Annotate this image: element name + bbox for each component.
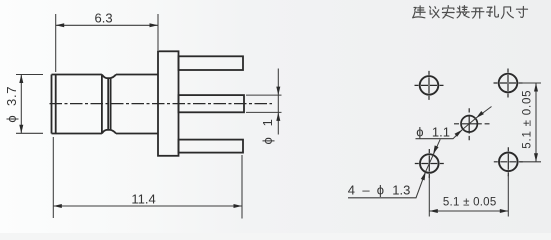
dimension phi 1: arrows xyxy=(276,87,280,96)
hole center xyxy=(454,108,490,140)
svg-text:4: 4 xyxy=(348,183,355,198)
dimension phi 3.7: extension and dimension lines xyxy=(16,75,43,134)
svg-text:1.1: 1.1 xyxy=(432,125,450,140)
top PCB leg xyxy=(179,56,244,70)
svg-text:ϕ 3.7: ϕ 3.7 xyxy=(4,86,19,123)
svg-text:6.3: 6.3 xyxy=(95,10,113,25)
dimension 11.4: arrows xyxy=(53,204,62,208)
hole TR xyxy=(494,69,523,98)
dimension 6.3: extension and dimension lines xyxy=(56,14,158,72)
dimension 5.1 right: arrows xyxy=(534,83,538,92)
dimension 5.1 bottom: arrows xyxy=(429,209,438,213)
label phi 1.1 with leader xyxy=(416,107,492,140)
char zhuang xyxy=(457,6,469,18)
hole TL xyxy=(415,71,444,100)
svg-text:5.1 ± 0.05: 5.1 ± 0.05 xyxy=(443,197,497,209)
char yi xyxy=(430,6,439,17)
char an xyxy=(442,6,454,19)
char chi xyxy=(501,7,513,18)
svg-text:ϕ: ϕ xyxy=(377,183,384,198)
hole BR xyxy=(494,147,523,176)
svg-text:ϕ 1: ϕ 1 xyxy=(260,119,275,144)
svg-text:11.4: 11.4 xyxy=(131,191,155,206)
svg-text:–: – xyxy=(362,183,370,198)
dimension 5.1 bottom: extension and dimension lines xyxy=(429,175,508,217)
char cun xyxy=(516,6,527,17)
dimension phi 3.7: arrows xyxy=(19,75,23,84)
bottom PCB leg xyxy=(179,140,244,153)
flange xyxy=(158,51,179,156)
char kong xyxy=(487,6,499,17)
hole BL xyxy=(415,149,444,178)
centerline of connector axis xyxy=(50,103,273,105)
title: recommended mounting hole dimensions (custom CJK glyphs) xyxy=(413,6,528,19)
center pin xyxy=(179,95,245,112)
svg-text:ϕ: ϕ xyxy=(416,125,423,140)
dimension 11.4: extension and dimension lines xyxy=(53,137,242,219)
char jian xyxy=(413,6,426,18)
svg-text:5.1 ± 0.05: 5.1 ± 0.05 xyxy=(521,90,533,149)
dimension 5.1 right: extension and dimension lines xyxy=(520,83,542,162)
dimension 6.3: arrows xyxy=(56,23,64,27)
svg-text:1.3: 1.3 xyxy=(392,183,410,198)
dimension phi 1: extension and dimension lines xyxy=(246,69,282,135)
barrel body outline xyxy=(52,75,159,134)
char kai xyxy=(472,8,484,18)
label 4 - phi 1.3 with leader xyxy=(348,139,441,198)
